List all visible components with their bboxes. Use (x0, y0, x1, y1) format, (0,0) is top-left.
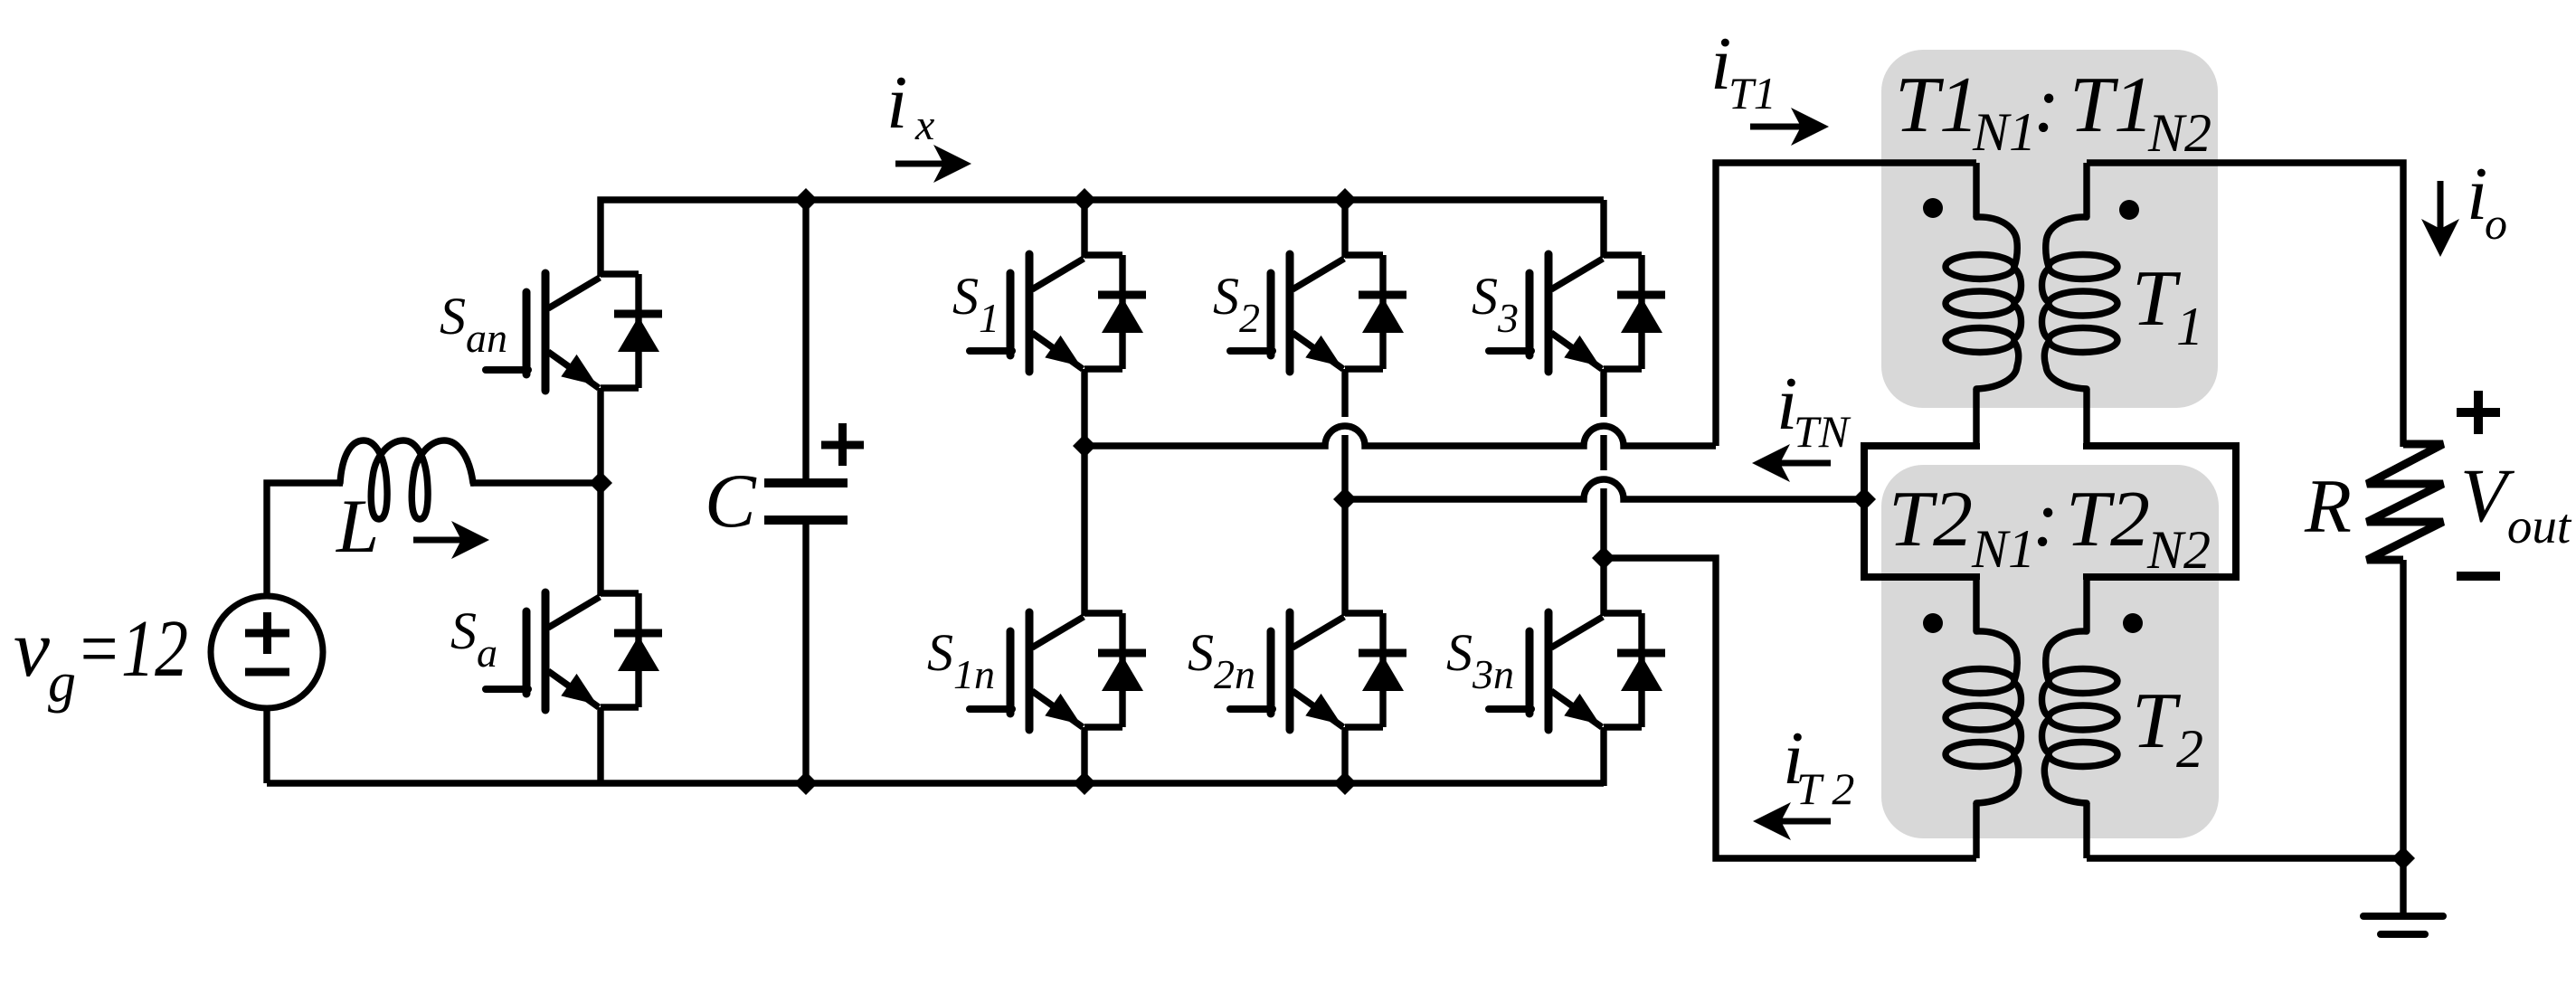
wire T1 secondary to output top (2087, 163, 2403, 447)
arrow ix (895, 161, 943, 167)
svg-text:TN: TN (1794, 406, 1851, 457)
T1 secondary winding (2083, 163, 2089, 217)
arrow io (2438, 181, 2444, 229)
wire San collector up (601, 200, 806, 277)
wire top bus left corner (597, 388, 603, 487)
T2 primary polarity dot (1923, 613, 1943, 633)
wire S3 mid to S3n collector (1600, 558, 1606, 616)
junction S3 mid node (1592, 546, 1615, 570)
resistor R (2367, 444, 2443, 560)
bottom bus (267, 780, 1604, 786)
capacitor C top plate (764, 478, 848, 487)
wire node A to Sa collector (597, 483, 603, 596)
wire T2 secondary to ground node (2087, 855, 2403, 861)
Vout minus sign (2457, 572, 2500, 581)
svg-text::: : (2032, 476, 2059, 563)
node A junction (589, 471, 612, 495)
transistor S1 (970, 254, 1146, 372)
wire S3n emitter to bus (1600, 727, 1606, 786)
svg-text:C: C (705, 459, 757, 544)
svg-text:g: g (48, 652, 76, 714)
junction C bottom (794, 771, 818, 795)
wire S3 mid to T2 primary bottom (1604, 558, 1976, 858)
arrow iTN (1780, 460, 1831, 467)
T1 secondary polarity dot (2119, 200, 2139, 220)
svg-text:T1: T1 (1728, 68, 1776, 118)
T2 secondary polarity dot (2123, 613, 2143, 633)
wire source top to inductor (267, 483, 343, 596)
wire S2n emitter to bus (1341, 727, 1348, 783)
T2 primary winding (1973, 577, 1979, 631)
junction S1 top (1073, 188, 1096, 212)
wire S1n emitter to bus (1081, 727, 1087, 783)
top bus (803, 196, 1604, 203)
svg-text:T2: T2 (1889, 476, 1973, 563)
junction iTN node (1852, 487, 1876, 511)
transistor San (486, 273, 662, 391)
wire S2 emitter to mid (gap at row1 hump) (1341, 369, 1348, 417)
capacitor C bottom lead (802, 520, 809, 783)
transistor Sa (486, 592, 662, 710)
junction S1 mid node (1073, 434, 1096, 458)
transformer T1 shaded box (1881, 50, 2218, 408)
Vout plus sign (2457, 408, 2500, 417)
wire S1 emitter to mid (1081, 369, 1087, 446)
T1 primary polarity dot (1923, 198, 1943, 218)
wire inductor to node A (470, 479, 601, 486)
svg-text:i: i (886, 61, 907, 145)
wire R bottom to ground node (2400, 560, 2406, 858)
vg plus sign (245, 629, 289, 638)
wire S2 mid to S2n collector (1341, 499, 1348, 616)
arrow iT1 (1750, 124, 1801, 130)
wire S1 collector (1081, 200, 1087, 258)
inductor L (340, 440, 473, 519)
transformer T2 shaded box (1881, 465, 2219, 838)
transistor S1n (970, 612, 1146, 730)
junction S2 top (1333, 188, 1357, 212)
svg-text:T1: T1 (2069, 61, 2154, 149)
wire row2: S2 mid to neutral node (hops leg 3) (1345, 479, 1864, 499)
capacitor plus sign (821, 441, 864, 449)
arrow iT2 (1781, 818, 1831, 825)
ground (2400, 858, 2406, 916)
vg minus sign (245, 668, 289, 676)
svg-text:R: R (2304, 464, 2352, 549)
wire source bottom to bus (263, 708, 270, 783)
transistor S3n (1489, 612, 1665, 730)
wire Sa emitter to bottom bus (597, 707, 603, 786)
svg-text:N1: N1 (1972, 102, 2036, 162)
junction S2n bottom (1333, 771, 1357, 795)
wire S1 mid to S1n collector (1081, 446, 1087, 616)
wire S3 collector (1600, 200, 1606, 258)
svg-text:L: L (336, 484, 379, 569)
T2 secondary winding (2083, 577, 2089, 631)
transistor S2n (1230, 612, 1406, 730)
junction C top (794, 188, 818, 212)
voltage source vg circle (211, 596, 323, 708)
wire row1: S1 mid to T1 primary (hops legs 2,3) (1084, 426, 1716, 446)
arrow L current (413, 537, 461, 544)
wire S3 emitter to mid (gaps at row1,row2 humps) (1600, 369, 1606, 417)
transistor S2 (1230, 254, 1406, 372)
svg-text:T2: T2 (2066, 476, 2150, 563)
svg-text:v: v (14, 604, 50, 694)
svg-text:T1: T1 (1895, 61, 1979, 149)
junction S2 mid node (1333, 487, 1357, 511)
T1 primary winding (1973, 163, 1979, 217)
svg-text:N2: N2 (2147, 103, 2211, 163)
svg-text:N2: N2 (2146, 520, 2211, 580)
primary neutral bracket (1864, 443, 1976, 580)
junction output bottom (2391, 847, 2415, 870)
capacitor C top lead (802, 200, 809, 483)
wire S2 collector (1341, 200, 1348, 258)
svg-text:o: o (2485, 198, 2507, 249)
transistor S3 (1489, 254, 1665, 372)
svg-text:=12: =12 (76, 604, 188, 694)
svg-text::: : (2033, 61, 2060, 149)
svg-text:N1: N1 (1971, 519, 2035, 579)
capacitor C bottom plate (764, 516, 848, 525)
secondary series bracket (2087, 443, 2236, 580)
junction S1n bottom (1073, 771, 1096, 795)
svg-text:x: x (914, 101, 934, 149)
svg-text:T 2: T 2 (1796, 763, 1854, 814)
